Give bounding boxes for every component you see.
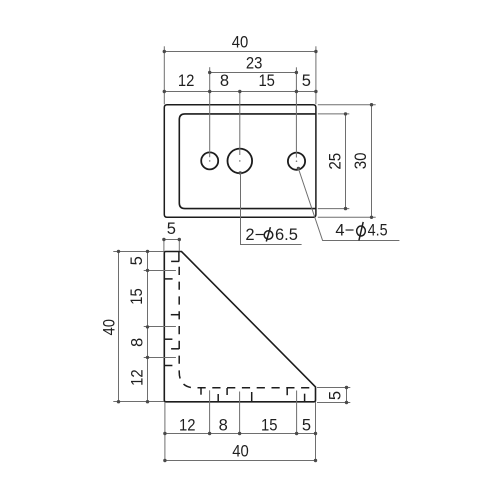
extension lines right side top view (318, 104, 376, 106)
centerline middle hole (239, 92, 241, 155)
dim line 40 top (164, 51, 316, 53)
extension line left edge top view (163, 46, 165, 104)
dim line 5-15-8-12 left (147, 251, 149, 401)
svg-text:8: 8 (219, 417, 228, 435)
svg-text:40: 40 (232, 443, 249, 461)
dim 5 right bottom (317, 387, 350, 389)
svg-text:5: 5 (128, 256, 146, 265)
svg-text:6.5: 6.5 (275, 226, 298, 244)
hole center dots (209, 160, 211, 162)
hole3 bottom edge (164, 365, 172, 367)
hole1 bottom edge (164, 278, 172, 280)
dim line 23 (210, 72, 297, 74)
hole1 top edge (171, 260, 179, 262)
svg-text:4.5: 4.5 (368, 222, 388, 240)
hole2 bottom edge (164, 338, 172, 340)
svg-text:12: 12 (178, 72, 195, 90)
svg-text:5: 5 (302, 72, 311, 90)
hidden hole edges in bottom plate (200, 388, 202, 394)
svg-text:40: 40 (101, 319, 119, 336)
hole left (phi4.5) (201, 152, 218, 169)
svg-text:12: 12 (179, 417, 196, 435)
dim line 12-8-15-5 (164, 91, 316, 93)
svg-text:15: 15 (128, 288, 146, 305)
extension line right edge top view (315, 46, 317, 104)
svg-text:23: 23 (246, 55, 263, 73)
side view inner wall visible segment above hole1 (178, 252, 180, 262)
svg-text:15: 15 (261, 417, 278, 435)
dim line 30 (371, 105, 373, 218)
svg-text:30: 30 (352, 153, 370, 170)
label 2-phi6.5 (245, 226, 298, 244)
svg-text:8: 8 (220, 72, 229, 90)
dim 5 wall thickness top (163, 241, 165, 252)
svg-text:5: 5 (167, 220, 176, 238)
svg-text:5: 5 (302, 417, 311, 435)
hole right (phi4.5) (288, 153, 305, 170)
top view outer plate outline (164, 105, 316, 218)
top view inner boss outline (179, 114, 316, 209)
dim line 40 left (118, 251, 120, 401)
hole3 top edge (171, 348, 179, 350)
leader right hole to 4-phi4.5 (297, 167, 300, 170)
hidden line wall inner surface + fillet + bottom plate top surface (179, 267, 313, 388)
hole center (phi6.5) (228, 149, 253, 174)
svg-text:25: 25 (326, 153, 344, 170)
svg-text:5: 5 (327, 391, 345, 400)
hole2 top edge (171, 314, 179, 316)
side view left extension lines (113, 251, 164, 253)
leader center hole to 2-phi6.5 (239, 171, 242, 174)
dim line 40 bottom (165, 460, 316, 462)
svg-text:12: 12 (129, 369, 147, 386)
svg-text:8: 8 (129, 338, 147, 347)
bottom extension lines (209, 390, 211, 433)
dim line 12-8-15-5 bottom (165, 433, 316, 435)
svg-text:40: 40 (232, 34, 249, 52)
svg-text:4−: 4− (335, 222, 354, 240)
centerline left hole (209, 67, 211, 157)
svg-text:2−: 2− (245, 226, 264, 244)
svg-text:15: 15 (258, 72, 275, 90)
side view profile (164, 252, 315, 402)
dim line 25 (345, 114, 347, 209)
centerline right hole (295, 67, 297, 157)
label 4-phi4.5 (335, 222, 387, 241)
